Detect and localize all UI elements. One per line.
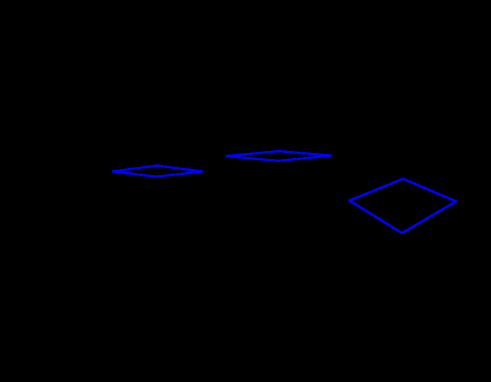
middle flat diamond (perspective square 2) bbox=[226, 151, 332, 161]
left flat diamond (perspective square 1) bbox=[112, 166, 203, 177]
right large diamond (perspective square 3) bbox=[350, 179, 457, 233]
